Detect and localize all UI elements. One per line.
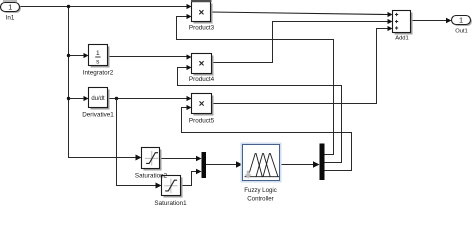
junction dot on In1 line (67, 5, 70, 8)
product block Product4 (189, 54, 215, 84)
output port Out1 (452, 15, 473, 34)
wire to Integrator2 input (69, 53, 89, 58)
product block Product3 (189, 2, 215, 32)
svg-text:Saturation1: Saturation1 (154, 200, 187, 205)
wire Demux output1 to Product3 input2 (177, 14, 334, 155)
demux bar (320, 144, 325, 181)
integrator block Integrator2 (83, 45, 114, 77)
wire branch down from In1 line to Saturation2 (69, 7, 142, 161)
junction dot after Derivative1 (115, 97, 118, 100)
junction dot Integrator2 branch (67, 54, 70, 57)
wire Product3 to Add1 input1 (211, 12, 393, 17)
wire Demux output3 to Product5 input2 (182, 105, 352, 171)
wire Product4 to Add1 input2 (212, 19, 393, 63)
artifact bar above In1 (3, 0, 17, 2)
product block Product5 (189, 94, 215, 125)
svg-text:Integrator2: Integrator2 (83, 69, 114, 76)
junction dot Derivative1 branch (67, 97, 70, 100)
svg-text:Product5: Product5 (189, 117, 215, 124)
svg-text:Product3: Product3 (189, 25, 215, 32)
wire Add1 to Out1 (411, 18, 452, 24)
svg-text:du/dt: du/dt (91, 96, 105, 102)
svg-text:Saturation2: Saturation2 (135, 172, 168, 179)
svg-text:Fuzzy Logic: Fuzzy Logic (244, 187, 277, 194)
svg-text:Add1: Add1 (395, 36, 409, 42)
svg-text:Controller: Controller (247, 195, 273, 202)
wire Derivative1 to Product5 input1 (108, 96, 192, 101)
wire Mux to Fuzzy Logic Controller (206, 161, 243, 167)
svg-text:In1: In1 (6, 15, 15, 22)
wire In1 to Product3 input1 (20, 4, 192, 9)
wire Product5 to Add1 input3 (212, 26, 393, 104)
svg-text:1: 1 (8, 2, 12, 11)
wire branch from Derivative1 output down to Saturation1 (117, 99, 162, 189)
saturation block Saturation1 (154, 176, 187, 207)
svg-text:1: 1 (96, 50, 100, 57)
wire Integrator2 to Product4 input1 (108, 54, 192, 59)
mux bar (202, 152, 207, 178)
input port In1 (1, 2, 22, 21)
svg-text:1: 1 (459, 15, 463, 24)
dark cropped bar on top of Product3 (191, 0, 212, 2)
fuzzy logic controller block U1 (241, 143, 282, 203)
svg-text:Product4: Product4 (189, 76, 215, 83)
svg-text:Derivative1: Derivative1 (82, 112, 114, 119)
svg-text:Out1: Out1 (455, 28, 468, 34)
wire Fuzzy Logic Controller to Demux (282, 161, 320, 167)
wire Saturation2 to Mux input1 (160, 156, 202, 162)
saturation block Saturation2 (142, 148, 162, 171)
sum block Add1 (393, 11, 413, 42)
wire to Derivative1 input (69, 96, 89, 101)
wire Saturation1 to Mux input2 (181, 169, 202, 186)
derivative block Derivative1 (82, 88, 114, 119)
wire Demux output2 to Product4 input2 (178, 65, 342, 163)
